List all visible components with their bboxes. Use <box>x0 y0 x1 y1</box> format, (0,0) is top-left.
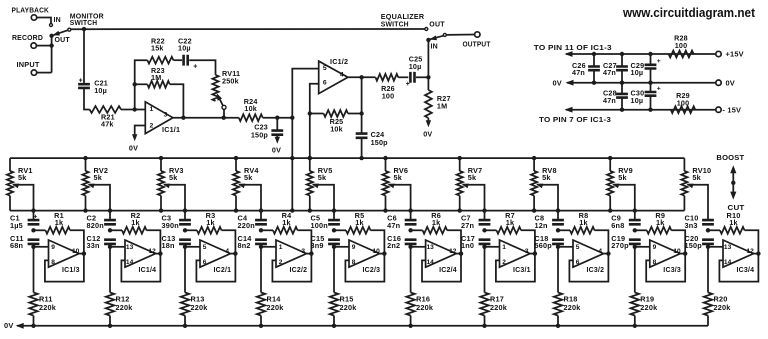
svg-text:IC2/4: IC2/4 <box>439 267 457 274</box>
wiper of RV7 <box>462 184 487 221</box>
svg-text:0V: 0V <box>129 143 138 152</box>
node: pin 6 line of IC1/2 <box>308 84 319 161</box>
svg-text:560p: 560p <box>535 241 553 250</box>
svg-text:9: 9 <box>51 244 55 251</box>
svg-text:1n0: 1n0 <box>461 241 474 250</box>
svg-text:68n: 68n <box>10 241 23 250</box>
capacitor C29 10µ <box>631 54 661 83</box>
capacitor C28 47n <box>603 83 628 110</box>
resistor R11 220k <box>29 245 56 328</box>
svg-text:100: 100 <box>675 41 688 50</box>
svg-text:IC2/3: IC2/3 <box>363 267 381 274</box>
svg-text:8: 8 <box>51 259 55 266</box>
svg-text:10k: 10k <box>330 124 343 133</box>
svg-text:5: 5 <box>323 65 327 72</box>
resistor R9 1k <box>633 211 688 256</box>
svg-text:220k: 220k <box>39 303 57 312</box>
svg-text:SWITCH: SWITCH <box>381 19 409 28</box>
potentiometer RV4 5k <box>233 156 260 213</box>
svg-text:+: + <box>657 85 661 92</box>
svg-text:100n: 100n <box>311 221 328 230</box>
capacitor C2 820n <box>87 214 116 230</box>
svg-text:TO PIN 7 OF IC1-3: TO PIN 7 OF IC1-3 <box>539 115 611 124</box>
0V terminal <box>716 78 735 87</box>
svg-text:5k: 5k <box>244 173 253 182</box>
svg-text:220n: 220n <box>238 221 255 230</box>
svg-text:3: 3 <box>525 248 529 255</box>
svg-text:12n: 12n <box>535 221 548 230</box>
wiper of RV3 <box>163 184 187 221</box>
capacitor C25 10µ <box>406 55 431 88</box>
svg-text:10µ: 10µ <box>631 68 644 77</box>
resistor R19 220k <box>631 245 658 328</box>
potentiometer RV3 5k <box>158 156 184 213</box>
svg-text:220k: 220k <box>416 303 434 312</box>
svg-text:10k: 10k <box>244 104 257 113</box>
svg-text:www.circuitdiagram.net: www.circuitdiagram.net <box>622 5 756 20</box>
resistor R6 1k <box>408 211 463 256</box>
potentiometer RV6 5k <box>382 156 408 213</box>
potentiometer RV9 5k <box>607 156 633 213</box>
svg-text:47n: 47n <box>572 68 585 77</box>
svg-text:10: 10 <box>673 248 681 255</box>
svg-text:1k: 1k <box>282 218 291 227</box>
resistor R3 1k <box>183 211 238 256</box>
svg-text:OUT: OUT <box>55 37 71 44</box>
svg-text:1k: 1k <box>131 218 140 227</box>
svg-text:10µ: 10µ <box>409 62 422 71</box>
potentiometer RV7 5k <box>457 156 483 213</box>
op-amp IC3/2 <box>558 240 608 282</box>
wiper of RV8 <box>536 184 560 221</box>
svg-text:6: 6 <box>576 259 580 266</box>
capacitor C4 220n <box>238 214 267 230</box>
wiper of RV5 <box>312 184 337 221</box>
svg-text:4: 4 <box>340 71 344 78</box>
capacitor C13 18n <box>162 234 191 250</box>
op-amp IC1/4 <box>110 240 160 282</box>
svg-text:15k: 15k <box>151 44 164 53</box>
svg-text:INPUT: INPUT <box>17 60 40 69</box>
potentiometer RV10 5k <box>681 158 711 211</box>
resistor R15 220k <box>330 245 357 328</box>
svg-text:CUT: CUT <box>728 203 745 212</box>
op-amp IC2/1 <box>185 240 235 282</box>
svg-text:+: + <box>33 214 37 221</box>
svg-text:13: 13 <box>126 244 134 251</box>
wire input/record junction <box>49 34 70 73</box>
svg-text:IC3/4: IC3/4 <box>737 267 755 274</box>
svg-text:10µ: 10µ <box>94 86 107 95</box>
svg-text:220k: 220k <box>267 303 285 312</box>
wiper of RV4 <box>238 184 263 221</box>
svg-text:14: 14 <box>427 259 435 266</box>
svg-text:3n3: 3n3 <box>685 221 698 230</box>
middle bus <box>10 210 684 212</box>
resistor R22 15k <box>135 36 182 109</box>
capacitor C21 10µ <box>78 29 108 109</box>
svg-text:TO PIN 11 OF IC1-3: TO PIN 11 OF IC1-3 <box>534 43 612 52</box>
capacitor C20 150p <box>685 234 714 250</box>
svg-text:18n: 18n <box>162 241 175 250</box>
svg-text:14: 14 <box>126 259 134 266</box>
svg-text:47k: 47k <box>101 120 114 129</box>
svg-text:150p: 150p <box>371 138 389 147</box>
capacitor C22 10µ <box>178 36 216 75</box>
svg-text:IC1/3: IC1/3 <box>62 267 80 274</box>
svg-text:SWITCH: SWITCH <box>70 18 98 27</box>
resistor R21 47k <box>90 106 146 129</box>
svg-text:8: 8 <box>352 259 356 266</box>
svg-text:5k: 5k <box>692 173 701 182</box>
svg-text:1k: 1k <box>206 218 215 227</box>
svg-text:1: 1 <box>502 244 506 251</box>
svg-text:5: 5 <box>576 244 580 251</box>
resistor R23 1M <box>133 66 186 120</box>
svg-text:3n9: 3n9 <box>311 241 324 250</box>
resistor R14 220k <box>257 245 284 328</box>
svg-text:OUTPUT: OUTPUT <box>463 40 491 49</box>
svg-text:100: 100 <box>677 99 690 108</box>
svg-text:1M: 1M <box>437 101 447 110</box>
resistor R13 220k <box>181 245 208 328</box>
svg-text:1k: 1k <box>55 218 64 227</box>
svg-text:+: + <box>406 81 410 88</box>
svg-text:0V: 0V <box>272 146 281 155</box>
svg-text:6: 6 <box>323 80 327 87</box>
svg-text:2: 2 <box>279 259 283 266</box>
svg-text:5k: 5k <box>618 173 627 182</box>
+15V terminal <box>716 50 744 59</box>
svg-text:5k: 5k <box>18 173 27 182</box>
svg-text:2n2: 2n2 <box>387 241 400 250</box>
svg-text:220k: 220k <box>191 303 209 312</box>
resistor R20 220k <box>704 245 731 326</box>
svg-text:33n: 33n <box>87 241 100 250</box>
svg-text:220k: 220k <box>640 303 658 312</box>
svg-text:5k: 5k <box>468 173 477 182</box>
capacitor C24 150p <box>356 75 388 160</box>
svg-text:5k: 5k <box>318 173 327 182</box>
svg-text:+: + <box>193 63 197 70</box>
capacitor C9 6n8 <box>611 214 640 230</box>
capacitor C30 10µ <box>631 83 661 110</box>
svg-text:9: 9 <box>653 244 657 251</box>
op-amp IC3/4 <box>708 240 758 282</box>
svg-text:150p: 150p <box>685 241 703 250</box>
capacitor C26 47n <box>572 54 600 83</box>
svg-text:+: + <box>79 78 83 85</box>
svg-text:47n: 47n <box>603 68 616 77</box>
op-amp IC2/4 <box>411 240 461 282</box>
capacitor C5 100n <box>311 214 340 230</box>
op-amp IC1/1 <box>145 102 173 134</box>
svg-text:1k: 1k <box>355 218 364 227</box>
op-amp IC2/2 <box>261 240 311 282</box>
svg-text:5k: 5k <box>542 173 551 182</box>
wire monitor switch to equalizer switch <box>71 27 427 31</box>
svg-text:10µ: 10µ <box>178 44 191 53</box>
svg-text:12: 12 <box>747 248 755 255</box>
svg-text:0V: 0V <box>4 321 13 330</box>
wiper of RV2 <box>87 184 112 221</box>
capacitor C27 47n <box>603 54 628 83</box>
monitor switch blade <box>53 12 104 36</box>
svg-text:IC3/2: IC3/2 <box>587 267 605 274</box>
svg-text:1k: 1k <box>656 218 665 227</box>
svg-text:IC1/2: IC1/2 <box>330 57 348 66</box>
potentiometer RV8 5k <box>531 156 557 213</box>
capacitor C7 27n <box>461 214 490 230</box>
resistor R12 220k <box>106 245 133 328</box>
svg-text:IC1/4: IC1/4 <box>139 267 157 274</box>
capacitor C11 68n <box>10 234 39 250</box>
top bus <box>10 157 684 159</box>
svg-text:8: 8 <box>653 259 657 266</box>
resistor R1 1k <box>31 211 86 256</box>
resistor R16 220k <box>406 245 433 328</box>
potentiometer RV2 5k <box>82 156 108 213</box>
resistor R28 100 <box>669 33 694 57</box>
bottom 0V bus <box>4 321 708 330</box>
svg-text:PLAYBACK: PLAYBACK <box>12 6 50 15</box>
svg-text:820n: 820n <box>87 221 104 230</box>
svg-text:5k: 5k <box>94 173 103 182</box>
svg-text:+15V: +15V <box>726 50 744 59</box>
resistor R27 1M <box>423 77 450 138</box>
resistor R26 100 <box>376 74 409 101</box>
svg-text:270p: 270p <box>611 241 629 250</box>
capacitor C19 270p <box>611 234 640 250</box>
INPUT terminal <box>17 60 52 75</box>
svg-text:BOOST: BOOST <box>716 153 744 162</box>
pin 2 ground of IC1/1 <box>129 126 145 153</box>
capacitor C8 12n <box>535 214 564 230</box>
resistor R25 10k <box>310 110 364 133</box>
OUTPUT terminal <box>463 32 491 49</box>
svg-text:250k: 250k <box>222 76 239 85</box>
potentiometer RV11 250k <box>212 69 240 101</box>
svg-text:2: 2 <box>150 123 154 130</box>
svg-text:27n: 27n <box>461 221 474 230</box>
svg-text:220k: 220k <box>490 303 508 312</box>
resistor R7 1k <box>482 211 537 256</box>
wiper of RV9 <box>612 184 637 221</box>
svg-text:1k: 1k <box>729 218 738 227</box>
capacitor C10 3n3 <box>685 214 714 230</box>
svg-text:IN: IN <box>431 43 438 50</box>
resistor R29 100 <box>671 91 695 113</box>
svg-text:6: 6 <box>203 259 207 266</box>
op-amp IC2/3 <box>334 240 384 282</box>
resistor R17 220k <box>480 245 507 328</box>
svg-text:IC2/2: IC2/2 <box>290 267 308 274</box>
website caption <box>622 5 756 20</box>
svg-text:0V: 0V <box>553 79 562 88</box>
resistor R10 1k <box>706 211 761 256</box>
-15V terminal <box>716 105 741 114</box>
svg-text:9: 9 <box>352 244 356 251</box>
op-amp IC1/3 <box>34 240 84 282</box>
svg-text:12: 12 <box>149 248 157 255</box>
resistor R18 220k <box>554 245 581 328</box>
svg-text:4: 4 <box>598 248 602 255</box>
svg-text:1: 1 <box>279 244 283 251</box>
svg-text:5k: 5k <box>169 173 178 182</box>
svg-text:13: 13 <box>724 244 732 251</box>
potentiometer RV1 5k <box>7 158 33 211</box>
resistor R2 1k <box>108 211 163 256</box>
wire IC1/2 output row <box>348 76 376 78</box>
svg-text:100: 100 <box>382 92 395 101</box>
svg-text:13: 13 <box>427 244 435 251</box>
wiper of RV10 <box>686 184 708 221</box>
resistor R24 10k <box>239 97 292 121</box>
PLAYBACK terminal <box>12 6 61 25</box>
svg-text:220k: 220k <box>340 303 358 312</box>
capacitor C15 3n9 <box>311 234 340 250</box>
svg-text:5: 5 <box>203 244 207 251</box>
svg-text:10: 10 <box>373 248 381 255</box>
capacitor C14 8n2 <box>238 234 267 250</box>
svg-text:150p: 150p <box>251 130 269 139</box>
svg-text:1k: 1k <box>432 218 441 227</box>
node: pin 5 line of IC1/2 <box>290 69 319 213</box>
svg-text:- 15V: - 15V <box>723 105 742 114</box>
svg-text:390n: 390n <box>162 221 179 230</box>
svg-text:IC3/1: IC3/1 <box>513 267 531 274</box>
svg-text:3: 3 <box>301 248 305 255</box>
svg-text:12: 12 <box>449 248 457 255</box>
capacitor C3 390n <box>162 214 191 230</box>
svg-text:10: 10 <box>72 248 80 255</box>
pin labels IC1/1 <box>150 106 181 134</box>
resistor R5 1k <box>332 211 387 256</box>
capacitor C23 150p <box>251 118 283 155</box>
0V rail <box>553 79 717 88</box>
svg-text:14: 14 <box>724 259 732 266</box>
svg-text:4: 4 <box>225 248 229 255</box>
svg-text:5k: 5k <box>394 173 403 182</box>
capacitor C6 47n <box>387 214 416 230</box>
svg-text:1k: 1k <box>506 218 515 227</box>
svg-text:OUT: OUT <box>429 22 445 29</box>
svg-text:47n: 47n <box>603 96 616 105</box>
wire IC1/1 output row <box>173 117 239 119</box>
svg-text:0V: 0V <box>423 129 432 138</box>
monitor switch IN contact <box>50 24 53 27</box>
op-amp IC1/2 <box>319 57 348 94</box>
svg-text:IC1/1: IC1/1 <box>162 125 180 134</box>
svg-text:RECORD: RECORD <box>12 33 43 42</box>
wiper of RV11 <box>217 93 226 120</box>
svg-text:47n: 47n <box>387 221 400 230</box>
svg-text:1µ5: 1µ5 <box>10 221 23 230</box>
svg-text:10µ: 10µ <box>631 96 644 105</box>
svg-text:IC3/3: IC3/3 <box>663 267 681 274</box>
op-amp IC3/3 <box>635 240 685 282</box>
svg-text:220k: 220k <box>116 303 134 312</box>
capacitor C16 2n2 <box>387 234 416 250</box>
svg-text:1M: 1M <box>151 73 161 82</box>
capacitor C12 33n <box>87 234 116 250</box>
svg-text:8n2: 8n2 <box>238 241 251 250</box>
svg-text:6n8: 6n8 <box>611 221 624 230</box>
resistor R4 1k <box>259 211 314 256</box>
RECORD terminal <box>12 33 52 48</box>
svg-text:IN: IN <box>54 17 61 24</box>
op-amp IC3/1 <box>485 240 535 282</box>
-15V rail <box>539 107 716 124</box>
svg-text:3: 3 <box>164 112 168 119</box>
svg-text:IC2/1: IC2/1 <box>214 267 232 274</box>
boost/cut arrow <box>716 153 744 212</box>
potentiometer RV5 5k <box>307 156 333 213</box>
wiper of RV1 <box>12 184 36 221</box>
svg-text:220k: 220k <box>714 303 732 312</box>
equalizer switch <box>381 12 475 77</box>
svg-text:2: 2 <box>502 259 506 266</box>
svg-text:1k: 1k <box>579 218 588 227</box>
svg-text:220k: 220k <box>564 303 582 312</box>
capacitor C1 1µ5 <box>10 214 39 230</box>
capacitor C18 560p <box>535 234 564 250</box>
capacitor C17 1n0 <box>461 234 490 250</box>
+15V rail <box>534 43 716 57</box>
svg-text:+: + <box>657 58 661 65</box>
resistor R8 1k <box>556 211 611 256</box>
svg-text:0V: 0V <box>726 78 735 87</box>
wiper of RV6 <box>387 184 413 221</box>
svg-text:1: 1 <box>150 106 154 113</box>
